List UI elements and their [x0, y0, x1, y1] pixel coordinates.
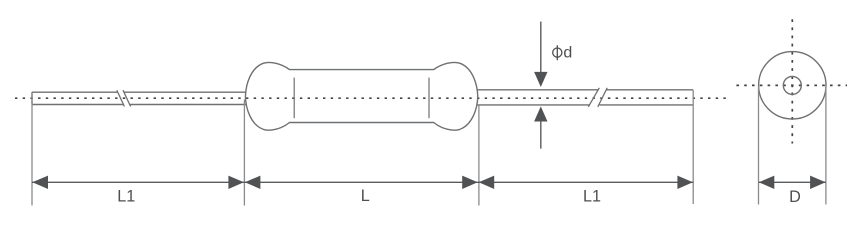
cap boundary line right — [428, 78, 430, 119]
resistor body outline — [245, 62, 477, 130]
arrowhead right L1 right (points right) — [677, 176, 693, 189]
svg-text:L: L — [361, 187, 370, 205]
centerline main axis — [15, 97, 729, 99]
end view outer circle — [759, 52, 826, 119]
arrowhead D right (points right) — [810, 176, 826, 189]
wire lead left segment 1 — [32, 92, 123, 104]
wire lead left segment 2 — [124, 92, 246, 104]
centerline end-view horizontal — [732, 84, 848, 86]
arrowhead phi-d up — [534, 106, 547, 121]
extension line body right (x=478.9) — [478, 105, 480, 205]
extension line body left (x=244.4) — [243, 100, 245, 206]
wire break right diagonal 2 — [598, 88, 607, 107]
wire break left diagonal 2 — [123, 90, 131, 106]
arrowhead L1 left (points left) — [32, 176, 48, 189]
wire lead right segment 1 — [477, 90, 598, 105]
svg-text:d: d — [563, 45, 572, 62]
arrowhead right L1 left (points left) — [479, 176, 495, 189]
wire break right diagonal 1 — [588, 88, 599, 107]
svg-text:D: D — [789, 188, 801, 206]
phi-d leader line bottom — [540, 121, 542, 149]
arrowhead phi-d down — [534, 72, 547, 87]
extension line end-view left tangent — [758, 86, 760, 205]
arrowhead L left (points left) — [245, 176, 261, 189]
arrowhead D left (points left) — [759, 176, 775, 189]
dimension line D — [759, 181, 826, 183]
extension line left end (x=32) — [31, 92, 33, 205]
svg-text:L1: L1 — [117, 188, 135, 206]
extension line right wire end (x=693.2) — [692, 90, 694, 204]
wire break left diagonal 1 — [117, 90, 125, 106]
cap boundary line left — [293, 78, 295, 119]
arrowhead L right (points right) — [462, 176, 478, 189]
arrowhead L1 right (points right) — [228, 176, 244, 189]
end view inner circle (lead cross-section) — [783, 76, 801, 94]
label phi-d — [553, 45, 573, 62]
extension line end-view right tangent — [825, 86, 827, 205]
wire lead right segment 2 — [600, 90, 694, 105]
dimension line bottom main — [32, 181, 693, 183]
centerline end-view vertical — [791, 19, 793, 143]
svg-text:L1: L1 — [583, 188, 601, 206]
phi-d leader line top — [540, 22, 542, 73]
